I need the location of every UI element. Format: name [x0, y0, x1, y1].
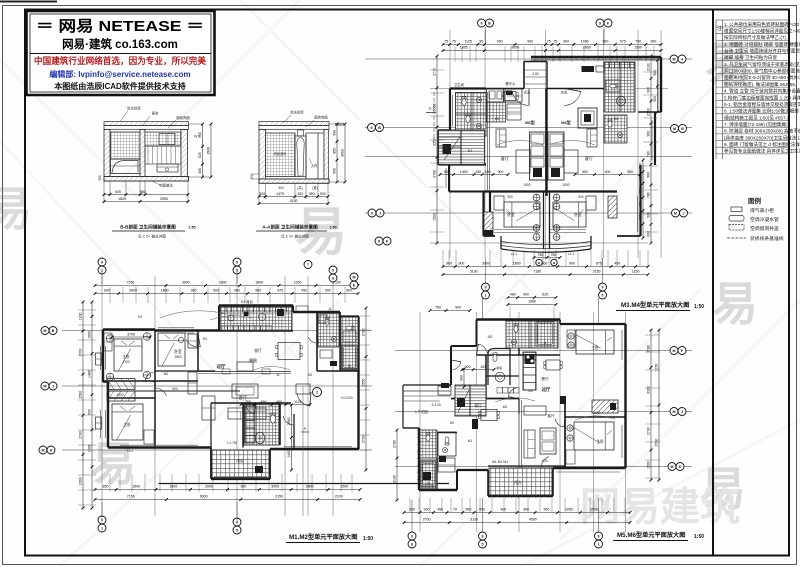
top-right kitchen block walls: [531, 56, 661, 58]
svg-text:M: M: [673, 57, 676, 61]
svg-text:见 C 5+ 做法详图: 见 C 5+ 做法详图: [281, 234, 309, 239]
extension verticals from top dim: [454, 46, 456, 62]
svg-text:900: 900: [172, 387, 178, 391]
dining: [278, 343, 300, 360]
long horizontal axis lines: [62, 330, 372, 332]
svg-text:900: 900: [446, 262, 452, 266]
svg-text:2600: 2600: [174, 355, 181, 359]
bottom centre balcony: [489, 468, 552, 495]
tub curve: [112, 161, 138, 174]
svg-text:客厅: 客厅: [547, 413, 555, 418]
svg-text:M2: M2: [164, 372, 169, 376]
svg-text:525: 525: [198, 152, 202, 158]
svg-text:阳台: 阳台: [236, 458, 244, 463]
left room tile wall: [111, 132, 141, 159]
svg-text:750: 750: [538, 253, 544, 257]
vanity counter: [157, 164, 178, 172]
top-left corner tick: [0, 1, 57, 3]
beds bottom bay: [504, 202, 540, 227]
svg-text:9: 9: [481, 21, 483, 25]
right wall: [324, 130, 329, 183]
svg-text:1200: 1200: [79, 312, 83, 320]
top dims: [95, 285, 358, 287]
svg-text:520: 520: [297, 192, 303, 196]
svg-text:卫生间: 卫生间: [454, 82, 465, 87]
svg-text:400: 400: [605, 170, 611, 174]
svg-text:1475: 1475: [276, 192, 284, 196]
right mid bath: [604, 115, 627, 143]
svg-text:750: 750: [435, 306, 441, 310]
svg-text:900: 900: [647, 87, 651, 93]
svg-text:900: 900: [455, 306, 461, 310]
svg-text:1500: 1500: [523, 183, 530, 187]
svg-text:1:50: 1:50: [694, 304, 704, 310]
svg-text:3000: 3000: [433, 103, 437, 111]
bedroom top-right: [576, 330, 614, 354]
svg-text:9: 9: [101, 260, 103, 264]
svg-text:主卧: 主卧: [123, 422, 131, 427]
middle walls: [159, 483, 450, 485]
svg-text:900: 900: [255, 289, 261, 293]
svg-text:DK: DK: [450, 421, 455, 425]
outer walls: [103, 328, 155, 330]
svg-text:1500: 1500: [647, 461, 651, 469]
svg-text:J: J: [683, 211, 685, 215]
svg-text:850: 850: [103, 485, 109, 489]
svg-text:面砖饰面: 面砖饰面: [314, 115, 328, 120]
svg-text:900: 900: [542, 459, 548, 463]
svg-text:1800: 1800: [513, 262, 521, 266]
svg-text:入户花园: 入户花园: [414, 409, 428, 414]
svg-text:7150: 7150: [127, 495, 135, 499]
svg-text:2300: 2300: [79, 477, 83, 485]
svg-text:客厅: 客厅: [501, 155, 509, 162]
svg-text:1: 1: [598, 542, 600, 546]
right wall: [181, 130, 188, 178]
gas meter boxes: [582, 66, 595, 72]
svg-text:390: 390: [309, 192, 315, 196]
svg-text:见 C 5+ 做法详图: 见 C 5+ 做法详图: [138, 234, 166, 239]
svg-text:过厅: 过厅: [542, 386, 551, 393]
svg-text:B: B: [378, 126, 381, 130]
svg-text:2150: 2150: [275, 495, 283, 499]
svg-text:600: 600: [647, 231, 651, 237]
svg-text:2100: 2100: [647, 63, 651, 71]
svg-text:2950: 2950: [160, 197, 168, 201]
svg-text:900: 900: [507, 195, 513, 199]
svg-text:850: 850: [333, 148, 337, 154]
svg-text:1:50: 1:50: [329, 226, 336, 230]
middle wall: [140, 130, 145, 178]
detail A-A top beam: [259, 122, 329, 126]
svg-text:M1.M1.M1: M1.M1.M1: [492, 460, 508, 464]
svg-text:M: M: [673, 127, 676, 131]
bedroom3 top-middle: [158, 333, 185, 366]
kitchen counter column: [523, 352, 536, 390]
svg-text:900: 900: [569, 262, 575, 266]
svg-text:3000: 3000: [341, 149, 345, 157]
plan A cabinet lines small rooms: [507, 95, 521, 97]
svg-text:900: 900: [498, 170, 504, 174]
svg-text:面砖饰面: 面砖饰面: [176, 115, 190, 120]
svg-text:2700: 2700: [79, 431, 83, 439]
svg-text:3000: 3000: [271, 485, 279, 489]
svg-text:B: B: [52, 329, 55, 333]
svg-text:-4.80: -4.80: [531, 72, 538, 76]
svg-text:1400: 1400: [460, 170, 468, 174]
pillow cross symbols: [533, 194, 540, 201]
svg-text:900: 900: [650, 40, 656, 44]
svg-text:1800: 1800: [169, 485, 177, 489]
plan B right col extension horizontals: [360, 315, 370, 317]
svg-text:9: 9: [371, 126, 373, 130]
living room: [228, 408, 266, 419]
interior walls: [154, 330, 156, 383]
floor slab: [259, 179, 329, 183]
svg-text:L1.1: L1.1: [511, 252, 517, 256]
svg-text:450: 450: [301, 289, 307, 293]
extension verticals bottom: [442, 250, 444, 266]
svg-text:460: 460: [510, 293, 516, 297]
svg-text:M: M: [353, 275, 356, 279]
svg-text:900: 900: [278, 186, 284, 190]
svg-text:棚圈: 棚圈: [249, 358, 257, 363]
svg-text:J: J: [681, 410, 683, 414]
svg-text:900: 900: [523, 508, 529, 512]
svg-text:M1: M1: [468, 149, 473, 153]
kitchen block dense cabinets: [220, 307, 292, 331]
svg-text:95: 95: [479, 40, 483, 44]
svg-text:620: 620: [542, 293, 548, 297]
bubbles: [98, 258, 106, 266]
bottom dims: [95, 489, 360, 491]
right room lower panel rows: [145, 146, 181, 164]
svg-text:900: 900: [240, 485, 246, 489]
svg-text:1125: 1125: [294, 400, 302, 404]
entry platform: [403, 390, 451, 392]
svg-text:450: 450: [437, 508, 443, 512]
svg-text:900: 900: [497, 40, 503, 44]
party wall centre: [545, 89, 547, 197]
top bathroom tile: [506, 321, 558, 348]
kitchen cabinets: [605, 63, 610, 69]
svg-text:3300: 3300: [219, 281, 227, 285]
svg-text:阳台: 阳台: [514, 480, 522, 485]
bottom-left bathroom: [420, 430, 437, 458]
centre bathroom: [244, 404, 279, 445]
svg-text:900: 900: [88, 409, 92, 415]
svg-text:900: 900: [465, 365, 471, 369]
svg-text:75: 75: [547, 40, 551, 44]
bubbles bottom: [479, 532, 487, 540]
left dim cols: [82, 302, 84, 508]
long axis lines: [395, 350, 692, 352]
svg-text:1500: 1500: [132, 485, 140, 489]
svg-text:900: 900: [333, 168, 337, 174]
svg-text:M: M: [44, 329, 47, 333]
svg-text:2850: 2850: [583, 46, 591, 50]
svg-text:900: 900: [320, 192, 326, 196]
plan C leader curves: [495, 398, 535, 402]
svg-text:M2: M2: [503, 405, 508, 409]
svg-text:750: 750: [245, 400, 251, 404]
svg-text:2780: 2780: [393, 440, 397, 448]
bottom dims: [258, 183, 260, 205]
svg-text:3700: 3700: [127, 332, 135, 336]
svg-text:M: M: [42, 448, 45, 452]
svg-text:2700: 2700: [655, 439, 659, 447]
svg-text:750: 750: [635, 40, 641, 44]
svg-text:75: 75: [444, 40, 448, 44]
svg-text:900: 900: [465, 508, 471, 512]
living furniture right: [548, 132, 564, 180]
svg-text:2700: 2700: [362, 435, 366, 443]
svg-text:150: 150: [475, 170, 481, 174]
window bands: [490, 494, 494, 498]
right wall window double lines: [651, 120, 653, 160]
svg-text:450: 450: [614, 262, 620, 266]
svg-text:3900: 3900: [255, 281, 263, 285]
svg-text:防水砂浆: 防水砂浆: [127, 106, 141, 111]
svg-text:900: 900: [653, 96, 657, 102]
caption plan M3.M4: [286, 301, 704, 543]
balcony side hatches: [484, 212, 493, 236]
bottom dims: [404, 512, 630, 514]
door arcs: [186, 340, 200, 348]
svg-text:主卧: 主卧: [591, 345, 599, 350]
small bottom dim + bubbles: [534, 257, 560, 259]
svg-text:客厅: 客厅: [585, 155, 593, 162]
svg-text:M2: M2: [308, 373, 313, 377]
svg-text:1500: 1500: [593, 411, 600, 415]
svg-text:玄关: 玄关: [561, 90, 568, 95]
svg-text:8: 8: [332, 276, 334, 280]
detail B-B top beam: [104, 122, 189, 126]
svg-text:3130: 3130: [290, 199, 298, 203]
plan C corridor lines: [518, 400, 520, 468]
right entry door arc + bubble: [297, 393, 310, 406]
bedroom2 bottom-left: [112, 404, 143, 440]
svg-text:9: 9: [482, 534, 484, 538]
svg-text:1980: 1980: [528, 300, 536, 304]
left tile room: [266, 133, 296, 177]
svg-text:防水砂浆: 防水砂浆: [290, 110, 304, 115]
svg-text:625: 625: [481, 365, 487, 369]
right bathrooms: [318, 313, 339, 347]
svg-text:玄关: 玄关: [524, 90, 531, 95]
svg-text:2350: 2350: [362, 379, 366, 387]
bedroom bottom-right: [574, 422, 614, 450]
svg-text:餐厅: 餐厅: [254, 348, 262, 353]
svg-text:M5.M6型单元平面放大图: M5.M6型单元平面放大图: [617, 531, 685, 539]
plan M3.M4 bottom dimension lines: [443, 266, 648, 268]
svg-text:900: 900: [578, 195, 584, 199]
svg-text:975: 975: [620, 40, 626, 44]
svg-text:1400: 1400: [88, 444, 92, 452]
svg-text:4-4.20: 4-4.20: [431, 403, 441, 407]
svg-text:M1: M1: [203, 337, 208, 341]
interior dim rows: [241, 404, 310, 406]
plan M3.M4 right dimension column: [650, 56, 652, 243]
svg-text:2780: 2780: [647, 345, 651, 353]
svg-text:900: 900: [647, 131, 651, 137]
svg-text:900: 900: [563, 40, 569, 44]
svg-text:900: 900: [424, 508, 430, 512]
svg-text:750: 750: [551, 253, 557, 257]
svg-text:3900: 3900: [205, 485, 213, 489]
extension verticals top: [109, 287, 111, 303]
window lines bay bottom: [504, 235, 540, 237]
svg-text:JL: JL: [328, 307, 332, 311]
svg-text:1480: 1480: [88, 370, 92, 378]
interior dims: [462, 369, 494, 371]
plan M3.M4 top dimension lines: [443, 44, 661, 46]
svg-text:900: 900: [602, 40, 608, 44]
window ticks top kitchen: [220, 304, 224, 307]
right door opening: [305, 133, 307, 179]
svg-text:K3 窗台: K3 窗台: [241, 299, 253, 304]
svg-text:J: J: [52, 384, 54, 388]
living furniture left: [516, 150, 530, 173]
svg-text:3900: 3900: [482, 262, 490, 266]
svg-text:1500: 1500: [562, 183, 569, 187]
right dim col: [365, 308, 367, 470]
svg-text:900: 900: [346, 289, 352, 293]
svg-text:780: 780: [647, 151, 651, 157]
plan A corridor double lines: [487, 92, 489, 191]
svg-text:9: 9: [485, 285, 487, 289]
svg-text:9: 9: [599, 21, 601, 25]
svg-text:M2: M2: [488, 335, 493, 339]
svg-text:5: 5: [602, 293, 604, 297]
outer walls: [477, 318, 561, 320]
svg-text:2150: 2150: [294, 281, 302, 285]
svg-text:900: 900: [459, 262, 465, 266]
axis verticals: [419, 312, 421, 532]
pillow crosses: [568, 333, 574, 339]
plan B corridor door rects: [222, 369, 230, 374]
plan B left extension horizontals: [78, 309, 96, 311]
svg-text:2700: 2700: [647, 427, 651, 435]
svg-text:5: 5: [236, 528, 238, 532]
hall small rooms: [487, 89, 504, 102]
top small dims: [508, 297, 556, 299]
svg-text:1: 1: [485, 293, 487, 297]
svg-text:W.T: W.T: [194, 135, 200, 139]
svg-text:1050: 1050: [565, 508, 573, 512]
svg-text:1:50: 1:50: [694, 534, 704, 540]
stair block: [439, 130, 485, 165]
svg-text:900: 900: [543, 508, 549, 512]
plan A left dim extension horizontals: [430, 69, 444, 71]
left wall: [259, 130, 266, 183]
window hatch top: [533, 56, 537, 61]
svg-text:M2: M2: [495, 117, 500, 121]
right vertical dims: [336, 124, 338, 182]
svg-text:淋浴: 淋浴: [496, 365, 502, 370]
plan M3.M4 axis bubbles left: [368, 124, 376, 132]
svg-text:300: 300: [259, 192, 265, 196]
kitchen tile right: [604, 62, 635, 112]
svg-text:2560: 2560: [287, 417, 291, 425]
svg-text:2800: 2800: [306, 485, 314, 489]
svg-text:3000: 3000: [511, 46, 519, 50]
master bedroom top-left: [114, 339, 142, 371]
svg-text:6900: 6900: [200, 495, 208, 499]
right column divider: [712, 9, 714, 556]
svg-text:900: 900: [234, 289, 240, 293]
svg-text:7150: 7150: [127, 281, 135, 285]
svg-text:3700: 3700: [122, 360, 129, 364]
svg-text:9: 9: [236, 260, 238, 264]
svg-text:7150: 7150: [655, 364, 659, 372]
svg-text:900: 900: [653, 70, 657, 76]
svg-text:1500: 1500: [88, 331, 92, 339]
svg-text:B-B剖面 卫生间铺装示意图: B-B剖面 卫生间铺装示意图: [120, 224, 176, 231]
svg-text:900: 900: [582, 170, 588, 174]
svg-text:9: 9: [602, 285, 604, 289]
detail B-B left wall: [104, 130, 110, 178]
svg-text:1805: 1805: [460, 46, 468, 50]
svg-text:M: M: [673, 410, 676, 414]
svg-text:主卧: 主卧: [596, 439, 604, 444]
svg-text:2500: 2500: [590, 508, 598, 512]
svg-text:950: 950: [140, 190, 146, 194]
svg-text:2: 2: [316, 390, 318, 394]
svg-text:900: 900: [325, 289, 331, 293]
plan C right extension horizontals: [645, 334, 660, 336]
svg-text:M3.M4型单元平面放大图: M3.M4型单元平面放大图: [621, 301, 689, 309]
dining table: [504, 92, 516, 101]
svg-text:900: 900: [647, 172, 651, 178]
svg-text:2150: 2150: [593, 270, 601, 274]
svg-text:900: 900: [501, 508, 507, 512]
inner dim rows: [440, 174, 508, 176]
svg-text:A: A: [304, 426, 307, 431]
wardrobe rows: [107, 379, 135, 390]
svg-text:7150: 7150: [533, 270, 541, 274]
svg-text:1125: 1125: [464, 40, 472, 44]
svg-text:B: B: [681, 127, 684, 131]
svg-text:1:50: 1:50: [188, 226, 195, 230]
balcony tile bottom: [212, 450, 269, 478]
small fixtures: [188, 372, 197, 394]
svg-text:1500: 1500: [340, 485, 348, 489]
middle pedestal sink column: [295, 136, 306, 177]
svg-text:9: 9: [411, 534, 413, 538]
svg-text:餐厅: 餐厅: [474, 403, 482, 408]
svg-text:75: 75: [452, 40, 456, 44]
svg-text:A-A剖面 卫生间铺装示意图: A-A剖面 卫生间铺装示意图: [262, 224, 318, 231]
svg-text:875: 875: [596, 262, 602, 266]
right dim cols: [650, 330, 652, 480]
svg-text:450: 450: [276, 400, 282, 404]
svg-text:450: 450: [479, 508, 485, 512]
svg-text:4500: 4500: [529, 518, 537, 522]
window bands bay sides: [489, 223, 491, 236]
svg-text:L3.1: L3.1: [127, 449, 133, 453]
plan B leader curves: [210, 315, 252, 320]
left dims: [396, 430, 398, 500]
svg-text:900: 900: [647, 212, 651, 218]
svg-text:4: 4: [681, 57, 683, 61]
svg-text:900: 900: [627, 170, 633, 174]
svg-text:K: K: [679, 465, 682, 469]
extension verticals bottom: [109, 474, 111, 492]
svg-text:J: J: [379, 211, 381, 215]
cabinet row below: [497, 388, 503, 394]
stair: [455, 385, 486, 416]
